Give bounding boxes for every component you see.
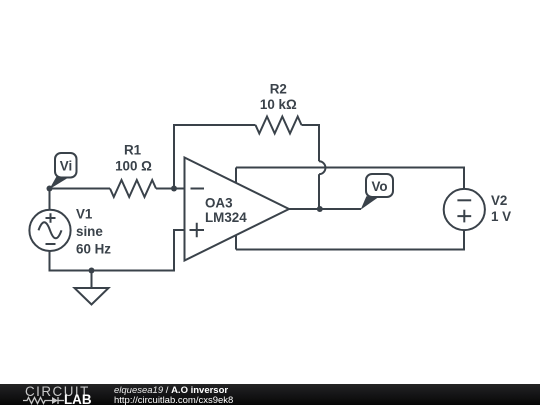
wire <box>289 208 361 210</box>
svg-text:60 Hz: 60 Hz <box>76 241 111 256</box>
wire <box>318 174 320 209</box>
label V2 value <box>491 193 511 224</box>
wire <box>235 168 237 250</box>
wire hop <box>319 161 325 174</box>
svg-text:V1: V1 <box>76 207 93 222</box>
wire <box>174 125 256 189</box>
svg-text:Vo: Vo <box>371 179 387 194</box>
resistor R1 <box>110 180 156 197</box>
ground <box>75 271 109 305</box>
voltage source V2 <box>444 189 485 230</box>
junction <box>89 268 95 274</box>
resistor R2 <box>256 117 302 134</box>
svg-text:1 V: 1 V <box>491 209 511 224</box>
op-amp OA3 <box>185 158 290 261</box>
CircuitLab logo <box>0 384 110 405</box>
junction <box>171 186 177 192</box>
svg-text:R1: R1 <box>124 143 142 158</box>
footer bar <box>0 384 540 405</box>
label V1 value <box>76 207 111 257</box>
svg-text:LAB: LAB <box>64 392 92 405</box>
wire <box>236 168 464 189</box>
svg-text:Vi: Vi <box>60 158 72 173</box>
label R2 value <box>260 82 297 113</box>
svg-text:OA3: OA3 <box>205 196 233 211</box>
wire <box>236 230 464 249</box>
wire <box>50 230 185 271</box>
footer text <box>114 386 233 406</box>
label R1 value <box>115 143 152 174</box>
node Vi flag <box>49 153 76 189</box>
junction <box>317 206 323 212</box>
wire <box>49 189 51 211</box>
voltage source V1 <box>29 210 70 251</box>
node Vo flag <box>361 174 393 210</box>
svg-text:R2: R2 <box>270 82 287 97</box>
svg-text:100 Ω: 100 Ω <box>115 158 152 173</box>
svg-text:LM324: LM324 <box>205 210 247 225</box>
svg-text:10 kΩ: 10 kΩ <box>260 97 297 112</box>
wire <box>156 188 185 190</box>
svg-text:V2: V2 <box>491 193 507 208</box>
wire <box>302 125 320 161</box>
junction <box>47 186 53 192</box>
wire <box>50 188 111 190</box>
svg-text:sine: sine <box>76 224 103 239</box>
